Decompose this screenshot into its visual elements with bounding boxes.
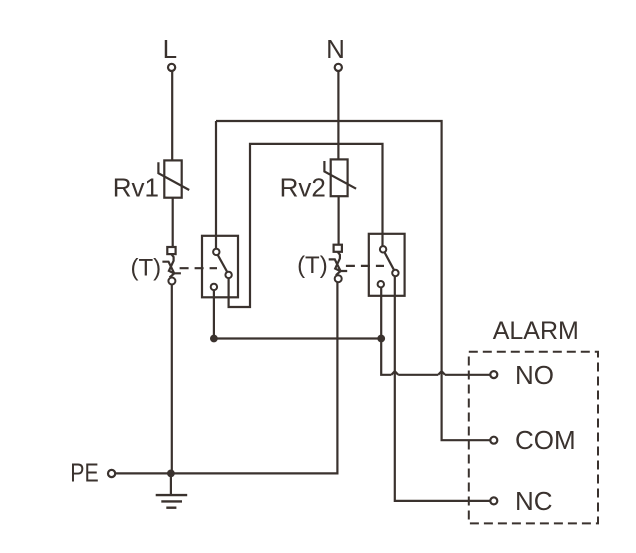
wire junction to NO terminal <box>381 339 391 375</box>
junction dot left <box>210 335 218 343</box>
svg-text:NC: NC <box>515 486 553 516</box>
svg-text:(T): (T) <box>297 252 328 279</box>
thermal disconnect T2 <box>329 245 348 283</box>
wire top bus (K1 common to COM riser) <box>216 121 490 440</box>
svg-text:L: L <box>163 34 177 64</box>
svg-text:PE: PE <box>70 458 98 488</box>
dashed link T2 to K2 <box>346 265 384 267</box>
wire T1 to PE junction <box>171 285 173 474</box>
svg-text:Rv2: Rv2 <box>280 172 326 202</box>
wire K2 NO down to junction <box>380 287 382 338</box>
terminal L <box>168 64 175 71</box>
wire NO terminal segment <box>398 374 438 376</box>
relay contact K1 <box>202 236 238 297</box>
terminal COM <box>490 437 497 444</box>
junction dot PE <box>167 470 175 478</box>
alarm box dashed <box>469 352 598 524</box>
wire Rv1 to T1 <box>172 198 174 247</box>
ground <box>156 473 188 507</box>
wire PE bus <box>115 282 337 473</box>
svg-text:ALARM: ALARM <box>493 317 579 345</box>
dashed link T1 to K1 <box>180 267 217 269</box>
svg-text:COM: COM <box>515 425 576 455</box>
wire L to Rv1 <box>171 71 173 160</box>
svg-text:(T): (T) <box>130 254 161 281</box>
wire NO to terminal <box>445 374 490 376</box>
wire junction bus <box>214 337 381 339</box>
terminal PE <box>108 470 115 477</box>
varistor Rv1 <box>158 160 189 197</box>
wire N to Rv2 <box>337 71 339 159</box>
terminal N <box>335 64 342 71</box>
terminal NC <box>490 497 497 504</box>
hop over NC riser <box>391 371 398 375</box>
svg-text:N: N <box>326 34 345 64</box>
wire K1 NC to K2 common <box>229 144 383 307</box>
varistor Rv2 <box>324 159 356 196</box>
wire Rv2 to T2 <box>338 196 340 245</box>
wire K2 NC riser to NC terminal <box>395 276 491 501</box>
svg-text:NO: NO <box>515 360 554 390</box>
wire K1 NO down to junction <box>213 290 215 338</box>
wire top bus to K1 common <box>215 121 217 249</box>
svg-text:Rv1: Rv1 <box>113 173 159 203</box>
junction dot right <box>377 335 385 343</box>
thermal disconnect T1 <box>162 247 181 285</box>
terminal NO <box>490 371 497 378</box>
relay contact K2 <box>369 234 405 296</box>
hop over COM riser <box>438 371 445 375</box>
